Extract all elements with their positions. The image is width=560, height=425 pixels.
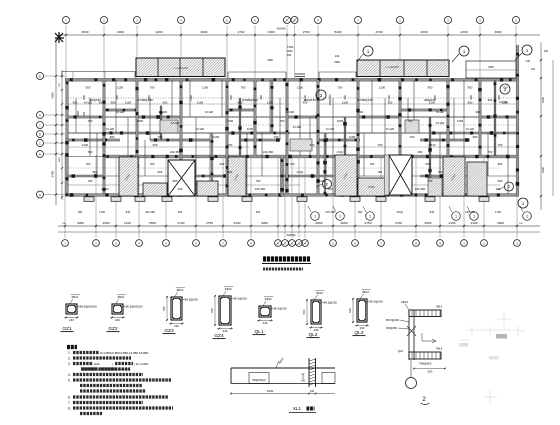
svg-text:A: A [39,193,41,197]
grid bubble top axis 8 [291,17,298,24]
svg-text:4Φ12: 4Φ12 [71,295,78,299]
svg-text:700: 700 [498,143,503,147]
exterior wall left [66,79,69,197]
svg-text:4200: 4200 [156,30,163,34]
svg-text:240 450: 240 450 [255,187,266,191]
grid bubble bottom axis 2 [93,240,100,247]
hatched wall block E [335,155,357,196]
interior corridor wall y156 [104,155,519,158]
svg-text:h=120: h=120 [499,100,508,104]
svg-text:500: 500 [302,309,306,314]
svg-text:5.: 5. [68,378,71,382]
svg-text:3200: 3200 [267,389,274,393]
svg-text:Φ6.5@200: Φ6.5@200 [369,299,383,303]
left inner dimension line [61,70,63,200]
svg-text:Φ7Φ8@150: Φ7Φ8@150 [357,98,373,102]
svg-text:Φ8@150: Φ8@150 [89,98,101,102]
svg-text:1100: 1100 [297,86,304,90]
svg-text:1100: 1100 [227,119,234,123]
svg-text:700: 700 [150,162,155,166]
grid bubble top axis 10 [355,17,362,24]
exterior wall top [65,78,519,81]
svg-text:1: 1 [455,215,457,219]
svg-text:4Φ12: 4Φ12 [316,291,323,295]
QL2 height dim [306,299,308,325]
svg-text:2350: 2350 [334,60,340,64]
svg-text:800: 800 [229,95,233,100]
small upper hatch mid right [405,120,419,133]
svg-text:Φ6.5@60/200: Φ6.5@60/200 [125,304,143,308]
svg-text:1100: 1100 [379,86,386,90]
svg-text:1100: 1100 [189,95,193,101]
interior dotted beam line y98 [68,97,516,99]
svg-text:640: 640 [126,210,131,214]
svg-text:b=120: b=120 [159,110,168,114]
C-detail top flange bar [409,310,441,317]
callout circle 1 lower right [518,198,528,208]
grid bubble top axis 5 [224,17,231,24]
svg-text:1: 1 [473,215,475,219]
svg-text:2.: 2. [68,356,71,360]
grid bubble left axis D y134 [37,131,44,138]
svg-text:700: 700 [370,162,375,166]
svg-text:700: 700 [438,170,443,174]
svg-text:42040: 42040 [277,27,286,31]
svg-text:3300: 3300 [268,30,275,34]
interior vertical wall axis 8 [317,80,319,194]
svg-text:900: 900 [498,162,503,166]
svg-text:240: 240 [360,326,365,330]
grid bubble bottom axis 5 [163,240,170,247]
svg-text:QL2: QL2 [308,332,317,338]
callout circle 1 far right [522,45,532,55]
interior wall y140 [66,139,120,141]
GZ3 rebar leader 4Φ12 [175,292,178,297]
interior vertical wall axis 5 [226,80,228,194]
balcony outline top-left [62,72,135,79]
svg-text:500: 500 [348,308,352,313]
QL1 width dim 240 [257,320,273,322]
svg-text:(: ( [112,362,113,366]
svg-text:3.550: 3.550 [287,46,294,49]
parapet outline top-mid-right [319,72,356,78]
svg-text:1100: 1100 [342,101,349,105]
svg-text:b=120: b=120 [293,125,302,129]
stairwell X left [168,160,195,196]
svg-text:B: B [39,152,41,156]
svg-text:900: 900 [468,86,473,90]
svg-text:23502060: 23502060 [329,94,332,105]
svg-text:120: 120 [531,68,536,71]
interior vertical wall axis 3 [136,80,138,194]
svg-text:700: 700 [86,162,91,166]
svg-text:3600: 3600 [51,92,55,99]
grid bubble bottom axis 12 [296,240,303,247]
drawing title bar [263,256,310,261]
svg-text:Φ6.5@60/200: Φ6.5@60/200 [79,304,97,308]
svg-text:900: 900 [498,179,503,183]
svg-text:Φ7Φ8@200: Φ7Φ8@200 [242,98,258,102]
svg-text:5200: 5200 [335,30,342,34]
svg-text:240: 240 [335,54,340,58]
left corner dim blob [55,32,64,43]
svg-text:240: 240 [174,324,179,328]
svg-text:900: 900 [468,101,473,105]
overall dimension 42040 bottom [58,231,540,233]
svg-text:8.: 8. [68,406,71,410]
grid bubble bottom axis 16 [378,240,385,247]
svg-text:Φ6@200(2): Φ6@200(2) [252,379,265,382]
svg-text:900: 900 [93,170,98,174]
svg-text:1: 1 [526,215,528,219]
top-right bay outline [466,61,516,78]
svg-text:624: 624 [228,170,233,174]
svg-text:700: 700 [150,86,155,90]
svg-text:4Φ12: 4Φ12 [176,288,183,292]
scattered room dimension labels row1 [86,86,508,90]
svg-text:620: 620 [426,162,431,166]
svg-text:240 450: 240 450 [415,187,426,191]
interior thin y185 [68,184,300,186]
svg-text:2100: 2100 [124,221,131,225]
interior vertical wall axis 2 [103,80,105,194]
grid bubble top axis 12 [445,17,452,24]
hatched wall block F [358,178,385,196]
svg-text:4.: 4. [68,373,71,377]
C-detail left leaders [400,320,409,322]
svg-text:Φ8@150: Φ8@150 [304,98,316,102]
grid bubble bottom axis 3 [113,240,120,247]
hatched wall block G [443,157,465,196]
grid bubble left axis D y115 [37,112,44,119]
svg-text:1100: 1100 [349,135,356,139]
svg-text:L-1 240x400: L-1 240x400 [385,66,399,69]
column detail GZ4 section [219,296,231,325]
svg-text:2750: 2750 [365,221,372,225]
C-detail bottom flange bar [409,352,441,359]
svg-text:1500: 1500 [137,119,144,123]
room dims row y103 [73,101,509,105]
svg-text:240: 240 [526,60,531,63]
svg-text:b=120: b=120 [326,127,335,131]
grid bubble top axis 7 [284,17,291,24]
svg-text:Φ8: Φ8 [378,170,382,174]
svg-text:H=3.850,6.850,9.850,12.850,15.: H=3.850,6.850,9.850,12.850,15.850. [100,351,149,355]
svg-text:240: 240 [178,187,183,191]
svg-text:E: E [39,74,41,78]
ghost detail faint lines [460,312,519,404]
hatched wall block D [228,157,246,196]
grid bubble top axis 9 [315,17,322,24]
svg-text:900: 900 [428,86,433,90]
drawing subtitle bar [263,268,303,271]
svg-text:240: 240 [263,321,268,325]
svg-text:640: 640 [153,143,158,147]
C-detail vertical wall [408,310,410,360]
grid bubble bottom axis 9 [275,240,282,247]
svg-text:b=120: b=120 [116,110,125,114]
svg-text:h=120: h=120 [436,110,445,114]
svg-text:2100: 2100 [234,221,241,225]
svg-text:800: 800 [497,95,501,100]
svg-text:2700: 2700 [395,221,402,225]
svg-text:1500: 1500 [77,111,80,117]
hatched wall block B [143,183,167,196]
svg-text:1700: 1700 [99,210,105,214]
grid bubble bottom axis 18 [437,240,444,247]
svg-text:h=120: h=120 [436,121,445,125]
svg-text:Φ6.5@200: Φ6.5@200 [323,300,337,304]
GZ1 stirrup leader [76,306,79,308]
svg-text:2550: 2550 [425,221,432,225]
svg-text:700: 700 [88,150,93,154]
svg-text:900: 900 [111,101,116,105]
svg-text:800: 800 [343,95,347,100]
GZ2 rebar leader 4Φ12 [116,299,119,304]
hatched small block I [428,178,442,196]
top dimension line [58,34,540,36]
ghost smudge [496,334,507,339]
svg-text:1100: 1100 [82,143,89,147]
interior vertical wall axis 6 [254,80,256,156]
column detail QL1 section [259,306,271,317]
grid bubble top axis 13 [477,17,484,24]
svg-text:900: 900 [473,135,478,139]
svg-text:1: 1 [314,215,316,219]
svg-text:900: 900 [259,95,263,100]
interior thin y147 [68,146,250,148]
stairwell right side hatch strip [385,155,390,195]
interior vertical wall axis 7 [286,80,288,194]
interior vertical wall axis 10 [399,80,401,194]
svg-text:450: 450 [178,210,183,214]
svg-text:700: 700 [274,135,279,139]
hatched wall block A [119,157,138,196]
svg-text:700: 700 [408,119,413,123]
XL1 top rebar label [276,361,279,368]
svg-text:2550: 2550 [149,221,156,225]
svg-text:450: 450 [78,210,83,214]
svg-text:786.5: 786.5 [436,347,443,351]
grid bubble bottom axis 8 [248,240,255,247]
grid bubble bottom axis 10 [282,240,289,247]
stairwell X right [389,155,412,195]
svg-text:900: 900 [173,179,178,183]
svg-text:1700: 1700 [495,210,501,214]
svg-text:4600: 4600 [201,30,208,34]
svg-text:2700: 2700 [303,30,310,34]
GZ4 width dim 240 [217,328,233,330]
svg-text:4Φ12: 4Φ12 [428,143,436,147]
parapet outline top-mid-left [228,72,286,78]
svg-text:Φ6@250: Φ6@250 [386,326,397,330]
grid bubble bottom axis 13 [302,240,309,247]
interior vertical wall axis 11 [447,80,449,194]
interior wall y110 segments [104,109,137,111]
interior dotted line y125 [68,124,516,126]
svg-text:6.: 6. [68,395,71,399]
svg-text:900: 900 [469,95,473,100]
svg-text:600: 600 [210,308,214,313]
bottom callout circles 1 [311,212,320,221]
svg-text:b=120: b=120 [106,127,115,131]
svg-text:43(1): 43(1) [397,210,403,214]
GZ2 stirrup leader [122,306,125,308]
column detail QL2 section [311,300,321,324]
svg-text:240: 240 [310,390,315,393]
interior vertical wall axis 9 [357,80,359,194]
C-detail circle mark [406,378,417,389]
svg-text:900: 900 [488,98,493,102]
QL3 width dim 240 [355,325,369,327]
svg-text:GZ1: GZ1 [62,326,72,332]
svg-text:b=120: b=120 [286,110,295,114]
svg-text:550: 550 [162,306,166,311]
svg-text:2900: 2900 [316,221,323,225]
svg-text:240 450: 240 450 [145,210,155,214]
C-detail top leader 2Φ14 [405,304,409,310]
svg-text:Φ7Φ8@150: Φ7Φ8@150 [137,98,153,102]
svg-text:450: 450 [256,210,261,214]
grid bubble left axis E y76 [37,73,44,80]
GZ1 width dim 240 [64,317,79,319]
svg-text:-2.040: -2.040 [368,186,375,189]
svg-text:900: 900 [476,110,481,114]
callout circle 2 lower right [505,182,514,191]
svg-text:b=120: b=120 [466,127,475,131]
svg-text:2350: 2350 [267,58,273,62]
svg-text:4Φ12: 4Φ12 [265,297,272,301]
svg-text:240: 240 [83,111,86,116]
svg-text:1030: 1030 [337,119,344,123]
grid bubble bottom axis 4 [136,240,143,247]
svg-text:4Φ12: 4Φ12 [225,287,232,291]
hatched wall block H [467,162,487,196]
interior vertical wall axis 4 [180,80,182,194]
grid bubble left axis A y194.5 [37,191,44,198]
svg-text:1100: 1100 [197,101,204,105]
column detail QL3 section [357,299,367,322]
svg-text:1: 1 [339,215,341,219]
scattered room labels rows [89,98,493,102]
bottom dimension line [58,225,540,227]
bottom small texts row [78,210,502,214]
C-detail inner corner arrow [422,333,436,343]
svg-text:XL1: XL1 [293,406,302,411]
QL3 stirrup leader [366,301,369,303]
svg-text:700: 700 [158,135,163,139]
svg-text:2000: 2000 [497,221,504,225]
svg-text:2600: 2600 [341,221,348,225]
column detail GZ3 section [171,297,182,320]
grid bubble bottom axis 19 [461,240,468,247]
svg-text:7Φ6@600: 7Φ6@600 [419,362,432,366]
interior vertical partitions thin [76,80,508,194]
svg-text:700: 700 [88,179,93,183]
svg-text:L-1 240x400: L-1 240x400 [174,67,188,70]
QL3 rebar leader 4Φ12 [361,294,364,299]
grid bubble bottom axis 7 [220,240,227,247]
svg-text:b=120: b=120 [386,127,395,131]
svg-text:42040: 42040 [287,233,296,237]
interior vertical partition wall bands [160,106,162,140]
grid bubble top axis 6 [252,17,259,24]
svg-text:L5(1): L5(1) [337,150,344,154]
svg-text:4Φ12: 4Φ12 [362,290,369,294]
svg-text:b=120: b=120 [171,121,180,125]
grid bubble bottom axis 11 [289,240,296,247]
QL1 stirrup leader [270,308,273,310]
svg-text:2350: 2350 [541,96,545,103]
top bay hatched block left [136,58,225,77]
XL1 beam outline [231,367,335,369]
svg-text:3000: 3000 [77,221,84,225]
XL1 stirrup box right [322,373,335,384]
middle wall band x282 [280,157,283,196]
grid bubble bottom axis 1 [62,240,69,247]
small upper hatch axis7 [290,139,312,151]
svg-text:) H=-0.050: ) H=-0.050 [134,362,149,366]
svg-text:Φ8@150: Φ8@150 [424,98,436,102]
svg-text:2000: 2000 [117,30,124,34]
interior thin line y104 [68,103,290,105]
svg-text:786.5: 786.5 [436,305,443,309]
svg-text:3000: 3000 [495,30,502,34]
svg-text:700: 700 [88,119,93,123]
interior wall y133 [68,132,516,134]
XL1 dimension line [231,393,335,395]
svg-text:620: 620 [310,143,315,147]
svg-text:624: 624 [158,170,163,174]
QL3 height dim [352,298,354,323]
GZ4 rebar leader 4Φ12 [223,291,226,296]
svg-text:P.1: P.1 [521,329,525,333]
svg-text:700: 700 [280,119,285,123]
svg-text:1100: 1100 [357,110,364,114]
XL1 stirrup box [249,373,269,384]
svg-text:900: 900 [73,101,78,105]
grid bubble top axis 4 [178,17,185,24]
grid bubble top axis 1 [63,17,70,24]
interior wall y176 [68,175,516,177]
column detail GZ2 section [112,304,123,314]
callout circle 2 lower mid [323,180,332,189]
svg-text:700: 700 [428,179,433,183]
level text column near axis 8 [287,46,294,57]
grid bubble top axis 14 [513,17,520,24]
svg-text:2Φ14: 2Φ14 [401,300,408,304]
svg-text:140 450: 140 450 [325,210,335,214]
QL2 width dim 240 [309,327,323,329]
svg-text:700: 700 [488,150,493,154]
svg-text:Φ6.5@400: Φ6.5@400 [386,318,400,322]
svg-text:640: 640 [430,210,435,214]
svg-text:800: 800 [82,95,86,100]
svg-text:1100: 1100 [213,135,220,139]
top bay hatched block right [357,60,449,77]
svg-text:GZ3: GZ3 [164,328,174,334]
interior dotted y168 [68,167,500,169]
svg-text:(: ( [98,367,99,371]
svg-text:450: 450 [358,210,363,214]
GZ3 width dim 240 [169,323,184,325]
QL1 rebar leader 4Φ12 [263,301,266,306]
svg-text:240: 240 [544,50,549,53]
svg-text:QL3: QL3 [398,349,404,353]
svg-text:4600: 4600 [421,30,428,34]
vertical axis grid extension lines [65,25,517,238]
svg-text:700: 700 [256,179,261,183]
